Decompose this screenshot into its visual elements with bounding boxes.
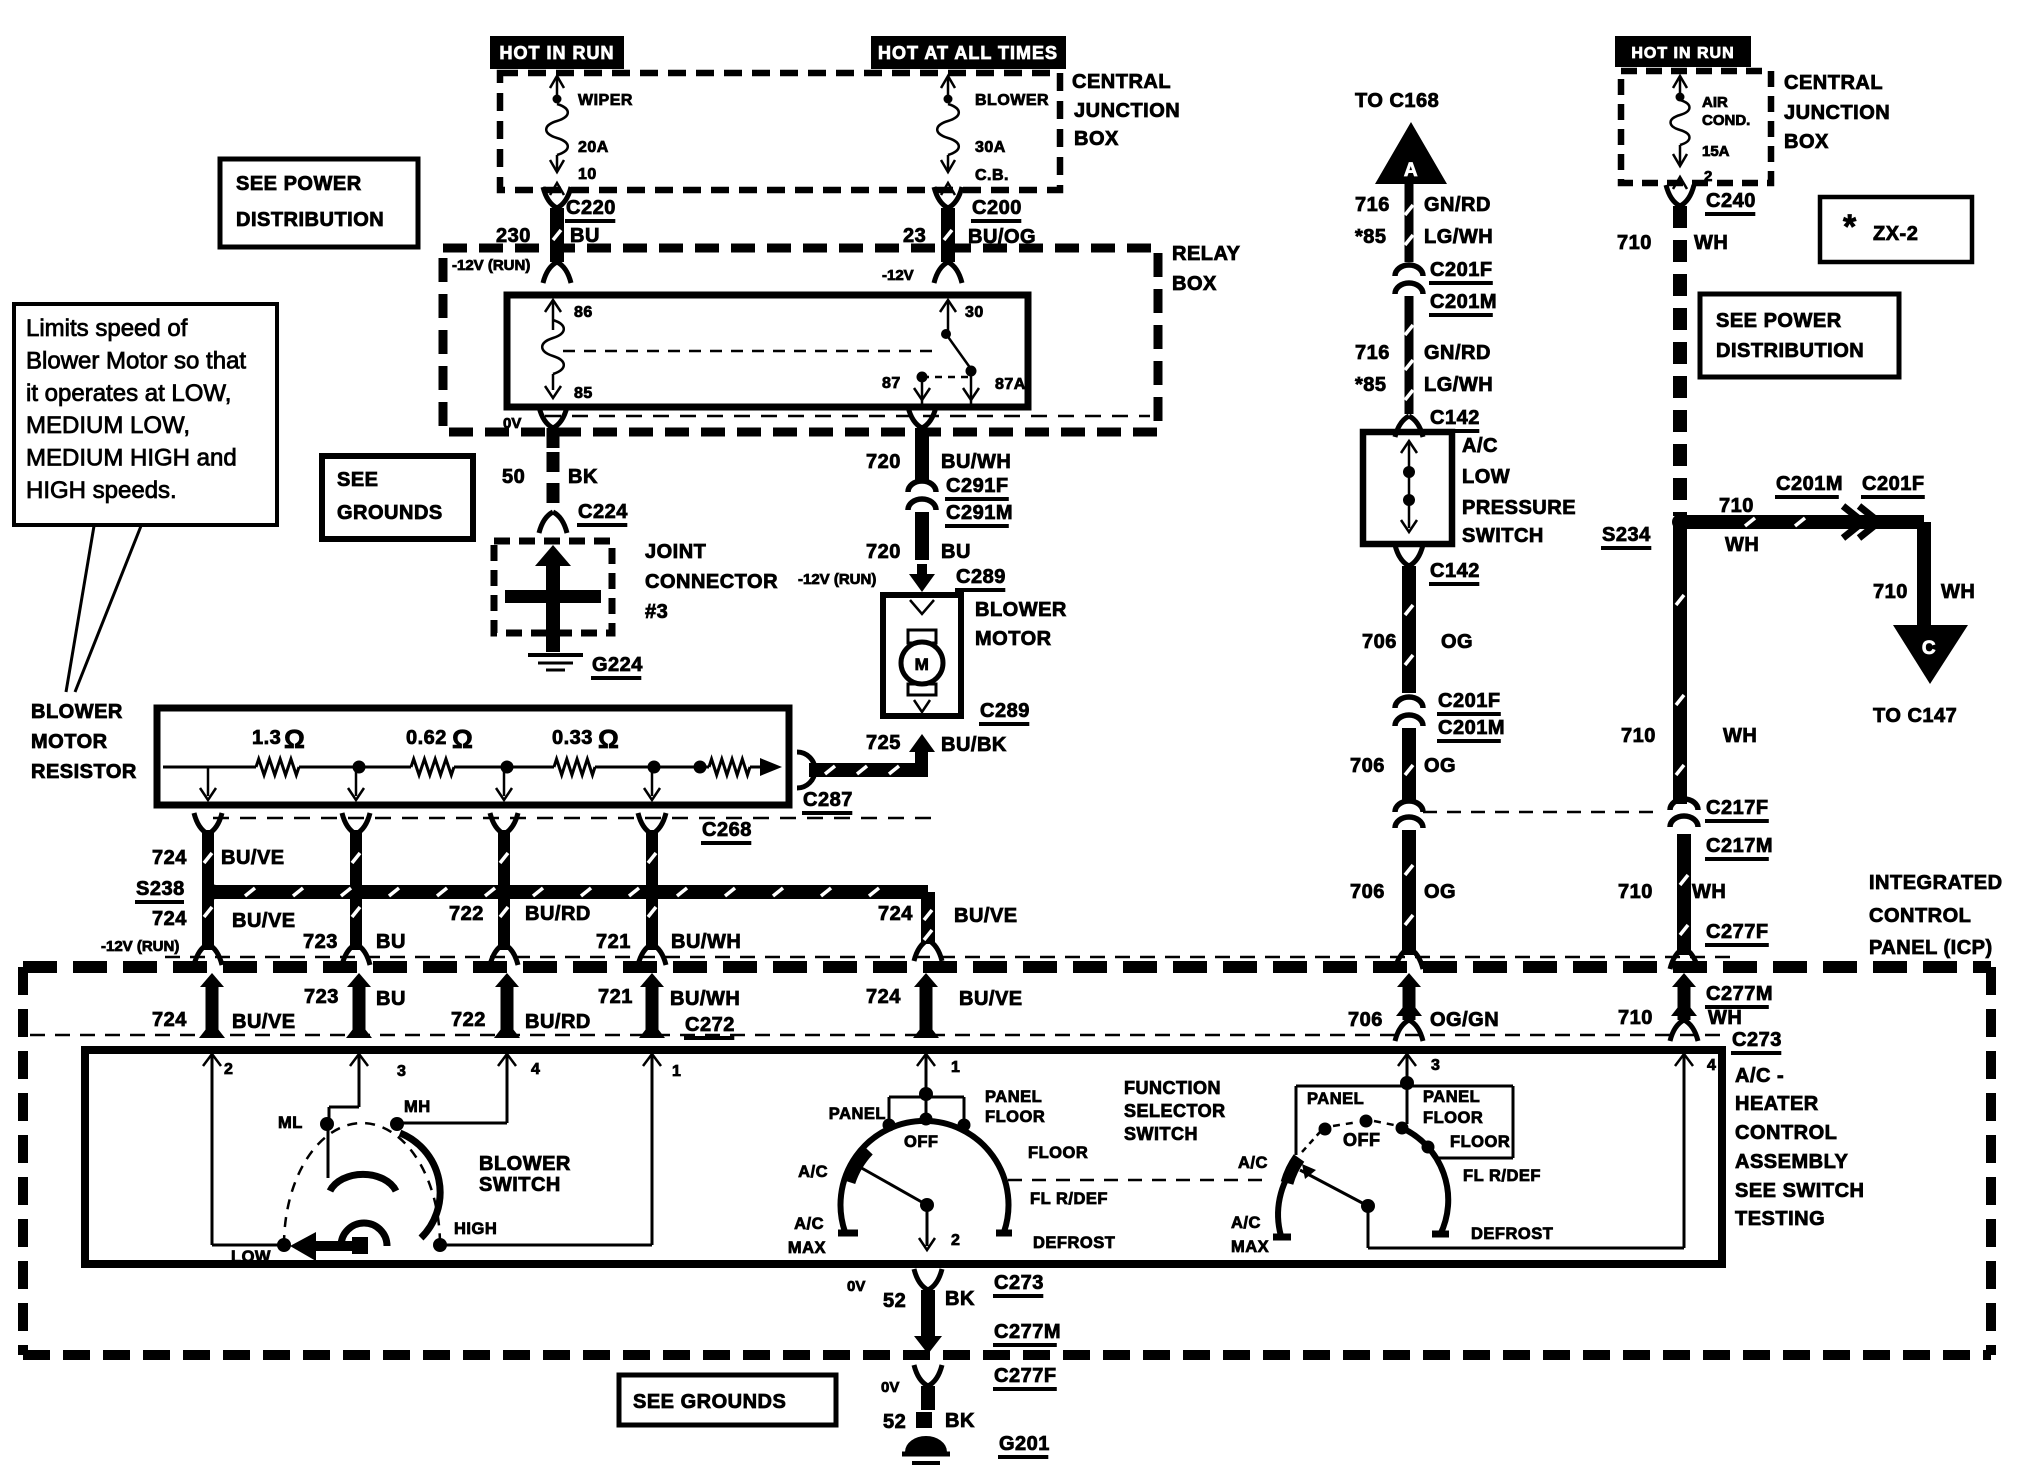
svg-text:2: 2 [1704,168,1712,185]
svg-text:BOX: BOX [1172,273,1217,295]
svg-text:85: 85 [574,385,593,402]
svg-text:BU/VE: BU/VE [959,988,1023,1010]
svg-text:PANEL: PANEL [1307,1090,1364,1108]
svg-text:SEE SWITCH: SEE SWITCH [1735,1180,1864,1202]
svg-text:C240: C240 [1706,190,1756,212]
svg-text:TO C168: TO C168 [1355,90,1439,112]
svg-text:C217M: C217M [1706,835,1773,857]
svg-text:C291F: C291F [946,475,1009,497]
svg-text:50: 50 [502,466,525,488]
svg-text:C273: C273 [994,1272,1044,1294]
svg-text:20A: 20A [578,139,609,156]
svg-text:724: 724 [878,903,913,925]
svg-text:WIPER: WIPER [578,92,633,109]
svg-text:710: 710 [1621,725,1656,747]
svg-text:0V: 0V [881,1379,899,1396]
svg-text:GN/RD: GN/RD [1424,342,1491,364]
svg-text:SEE POWER: SEE POWER [1716,310,1842,332]
svg-text:A/C -: A/C - [1735,1065,1784,1087]
svg-text:52: 52 [883,1411,906,1433]
svg-text:TO C147: TO C147 [1873,705,1957,727]
svg-text:OG/GN: OG/GN [1430,1009,1499,1031]
svg-text:PANEL (ICP): PANEL (ICP) [1869,937,1993,959]
svg-text:C142: C142 [1430,560,1480,582]
svg-text:BU/VE: BU/VE [232,910,296,932]
svg-text:716: 716 [1355,342,1390,364]
svg-text:87A: 87A [995,376,1026,393]
svg-text:*: * [1843,208,1857,246]
svg-text:BU: BU [941,541,971,563]
svg-text:ZX-2: ZX-2 [1873,223,1918,245]
svg-text:BK: BK [945,1288,975,1310]
svg-text:0V: 0V [847,1278,865,1295]
svg-text:C201M: C201M [1430,291,1497,313]
svg-text:WH: WH [1694,232,1728,254]
svg-text:SEE GROUNDS: SEE GROUNDS [633,1391,786,1413]
svg-text:BU/VE: BU/VE [221,847,285,869]
svg-text:722: 722 [451,1009,486,1031]
svg-text:BK: BK [568,466,598,488]
svg-text:OG: OG [1441,631,1473,653]
svg-text:HOT IN RUN: HOT IN RUN [500,43,615,63]
svg-text:LG/WH: LG/WH [1424,226,1493,248]
svg-text:3: 3 [1431,1057,1440,1074]
svg-text:A/C: A/C [1238,1154,1268,1172]
svg-text:BLOWER: BLOWER [975,92,1049,109]
svg-text:721: 721 [598,986,633,1008]
svg-text:724: 724 [152,1009,187,1031]
svg-text:722: 722 [449,903,484,925]
svg-text:C200: C200 [972,197,1022,219]
svg-text:LOW: LOW [231,1248,271,1266]
svg-text:SWITCH: SWITCH [1124,1124,1198,1144]
svg-text:15A: 15A [1702,143,1730,160]
svg-text:Ω: Ω [284,724,305,754]
svg-text:C289: C289 [980,700,1030,722]
svg-text:SWITCH: SWITCH [479,1174,561,1196]
svg-text:716: 716 [1355,194,1390,216]
svg-text:OG: OG [1424,755,1456,777]
svg-text:723: 723 [303,931,338,953]
svg-text:C268: C268 [702,819,752,841]
svg-text:SWITCH: SWITCH [1462,525,1544,547]
svg-text:86: 86 [574,304,593,321]
svg-text:C: C [1922,638,1936,659]
svg-text:C273: C273 [1732,1029,1782,1051]
svg-text:1: 1 [672,1063,681,1080]
svg-text:BU: BU [376,931,406,953]
svg-text:G224: G224 [592,654,643,676]
svg-text:BU/RD: BU/RD [525,1011,591,1033]
svg-text:BOX: BOX [1784,131,1829,153]
svg-text:0.62: 0.62 [406,727,447,749]
svg-text:BLOWER: BLOWER [479,1153,571,1175]
svg-text:OFF: OFF [904,1133,939,1151]
svg-text:ML: ML [278,1114,303,1132]
svg-text:RELAY: RELAY [1172,243,1241,265]
svg-text:C201M: C201M [1776,473,1843,495]
svg-text:SEE: SEE [337,469,379,491]
svg-text:706: 706 [1348,1009,1383,1031]
svg-text:87: 87 [882,375,901,392]
svg-text:BU/WH: BU/WH [671,931,741,953]
svg-text:PANEL: PANEL [1423,1088,1480,1106]
svg-text:M: M [915,655,930,674]
svg-text:723: 723 [304,986,339,1008]
svg-text:C277M: C277M [994,1321,1061,1343]
svg-text:10: 10 [578,166,597,183]
svg-text:C201F: C201F [1430,259,1493,281]
svg-text:BU/WH: BU/WH [670,988,740,1010]
svg-text:-12V: -12V [882,267,914,284]
svg-text:S234: S234 [1602,524,1651,546]
svg-text:HIGH speeds.: HIGH speeds. [26,477,177,504]
svg-text:BU/BK: BU/BK [941,734,1007,756]
svg-text:1: 1 [951,1059,960,1076]
svg-text:DISTRIBUTION: DISTRIBUTION [236,209,384,231]
svg-text:A/C: A/C [1231,1214,1261,1232]
svg-text:C217F: C217F [1706,797,1769,819]
svg-text:MH: MH [404,1098,431,1116]
svg-text:WH: WH [1725,534,1759,556]
svg-text:30: 30 [965,304,984,321]
svg-text:LOW: LOW [1462,466,1510,488]
svg-text:OFF: OFF [1343,1130,1381,1150]
svg-text:FLOOR: FLOOR [1450,1133,1510,1151]
svg-text:FLOOR: FLOOR [1028,1144,1088,1162]
svg-text:FL R/DEF: FL R/DEF [1463,1167,1541,1185]
svg-text:WH: WH [1708,1007,1742,1029]
svg-text:C201F: C201F [1862,473,1925,495]
svg-text:710: 710 [1719,495,1754,517]
svg-text:BU/VE: BU/VE [232,1011,296,1033]
svg-text:SEE POWER: SEE POWER [236,173,362,195]
svg-text:720: 720 [866,541,901,563]
svg-text:710: 710 [1618,1007,1653,1029]
svg-text:OG: OG [1424,881,1456,903]
svg-text:WH: WH [1941,581,1975,603]
svg-text:A/C: A/C [1462,435,1498,457]
svg-text:C289: C289 [956,566,1006,588]
svg-text:BLOWER: BLOWER [975,599,1067,621]
svg-text:-12V (RUN): -12V (RUN) [101,938,179,955]
svg-text:CENTRAL: CENTRAL [1784,72,1883,94]
svg-text:C220: C220 [566,197,616,219]
svg-text:FUNCTION: FUNCTION [1124,1078,1221,1098]
svg-text:706: 706 [1350,881,1385,903]
svg-text:ASSEMBLY: ASSEMBLY [1735,1151,1848,1173]
svg-text:it operates at LOW,: it operates at LOW, [26,380,231,407]
svg-text:724: 724 [152,847,187,869]
svg-text:A/C: A/C [798,1163,828,1181]
svg-text:WH: WH [1723,725,1757,747]
svg-text:SELECTOR: SELECTOR [1124,1101,1226,1121]
svg-text:C201F: C201F [1438,690,1501,712]
svg-text:BU: BU [376,988,406,1010]
svg-text:706: 706 [1350,755,1385,777]
svg-text:710: 710 [1618,881,1653,903]
svg-text:4: 4 [531,1061,540,1078]
svg-text:1.3: 1.3 [252,727,281,749]
svg-text:#3: #3 [645,601,668,623]
svg-text:CENTRAL: CENTRAL [1072,71,1171,93]
svg-text:BU/WH: BU/WH [941,451,1011,473]
svg-text:A/C: A/C [794,1215,824,1233]
svg-text:CONNECTOR: CONNECTOR [645,571,778,593]
svg-text:721: 721 [596,931,631,953]
svg-text:710: 710 [1873,581,1908,603]
svg-text:WH: WH [1692,881,1726,903]
svg-text:JUNCTION: JUNCTION [1784,102,1890,124]
svg-text:DISTRIBUTION: DISTRIBUTION [1716,340,1864,362]
svg-text:724: 724 [152,908,187,930]
svg-text:720: 720 [866,451,901,473]
svg-text:MAX: MAX [1231,1238,1269,1256]
svg-text:C277M: C277M [1706,983,1773,1005]
svg-text:C.B.: C.B. [975,167,1009,184]
svg-text:*85: *85 [1355,374,1387,396]
svg-text:BK: BK [945,1410,975,1432]
svg-text:0.33: 0.33 [552,727,593,749]
svg-text:52: 52 [883,1290,906,1312]
svg-text:4: 4 [1707,1057,1716,1074]
svg-text:725: 725 [866,732,901,754]
svg-text:PANEL: PANEL [829,1105,886,1123]
svg-text:MEDIUM LOW,: MEDIUM LOW, [26,412,190,439]
svg-text:MAX: MAX [788,1239,826,1257]
svg-text:706: 706 [1362,631,1397,653]
svg-text:C277F: C277F [994,1365,1057,1387]
svg-text:CONTROL: CONTROL [1735,1122,1837,1144]
svg-text:C277F: C277F [1706,921,1769,943]
svg-text:Blower Motor so that: Blower Motor so that [26,347,246,374]
svg-text:710: 710 [1617,232,1652,254]
svg-text:C291M: C291M [946,502,1013,524]
svg-text:0V: 0V [503,415,521,432]
svg-text:724: 724 [866,986,901,1008]
svg-text:-12V (RUN): -12V (RUN) [452,257,530,274]
svg-text:A: A [1404,160,1418,181]
svg-text:FL R/DEF: FL R/DEF [1030,1190,1108,1208]
svg-text:PANEL: PANEL [985,1088,1042,1106]
svg-text:3: 3 [397,1063,406,1080]
svg-text:COND.: COND. [1702,112,1750,129]
svg-text:LG/WH: LG/WH [1424,374,1493,396]
svg-text:C272: C272 [685,1014,735,1036]
svg-text:BU/VE: BU/VE [954,905,1018,927]
svg-text:FLOOR: FLOOR [985,1108,1045,1126]
svg-text:Ω: Ω [598,724,619,754]
svg-text:C287: C287 [803,789,853,811]
svg-text:30A: 30A [975,139,1006,156]
svg-text:DEFROST: DEFROST [1033,1234,1115,1252]
svg-text:GN/RD: GN/RD [1424,194,1491,216]
svg-text:*85: *85 [1355,226,1387,248]
svg-text:C142: C142 [1430,407,1480,429]
svg-text:2: 2 [951,1232,960,1249]
svg-text:Ω: Ω [452,724,473,754]
svg-text:RESISTOR: RESISTOR [31,761,137,783]
svg-text:JUNCTION: JUNCTION [1074,100,1180,122]
svg-text:FLOOR: FLOOR [1423,1109,1483,1127]
svg-text:C201M: C201M [1438,717,1505,739]
svg-text:Limits speed of: Limits speed of [26,315,188,342]
svg-text:BLOWER: BLOWER [31,701,123,723]
svg-text:2: 2 [224,1061,233,1078]
svg-text:INTEGRATED: INTEGRATED [1869,872,2003,894]
svg-text:MOTOR: MOTOR [975,628,1052,650]
svg-text:JOINT: JOINT [645,541,706,563]
svg-text:G201: G201 [999,1433,1050,1455]
svg-text:BU/RD: BU/RD [525,903,591,925]
svg-text:GROUNDS: GROUNDS [337,502,443,524]
svg-text:TESTING: TESTING [1735,1208,1825,1230]
svg-text:S238: S238 [136,878,185,900]
svg-text:MOTOR: MOTOR [31,731,108,753]
svg-text:HEATER: HEATER [1735,1093,1819,1115]
svg-text:HOT IN RUN: HOT IN RUN [1631,45,1734,62]
svg-text:MEDIUM HIGH and: MEDIUM HIGH and [26,445,237,472]
svg-text:DEFROST: DEFROST [1471,1225,1553,1243]
svg-text:C224: C224 [578,501,628,523]
svg-text:HOT AT ALL TIMES: HOT AT ALL TIMES [878,43,1058,63]
svg-text:BOX: BOX [1074,128,1119,150]
svg-text:HIGH: HIGH [454,1220,497,1238]
svg-text:PRESSURE: PRESSURE [1462,497,1576,519]
svg-text:AIR: AIR [1702,94,1728,111]
svg-text:CONTROL: CONTROL [1869,905,1971,927]
svg-text:-12V (RUN): -12V (RUN) [798,571,876,588]
